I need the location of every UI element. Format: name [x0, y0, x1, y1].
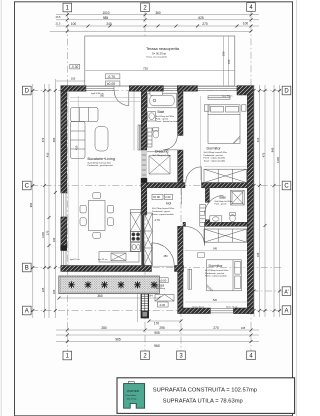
svg-text:Pereti : faianta/var lavabil: Pereti : faianta/var lavabil — [156, 120, 180, 123]
svg-text:Pardoseala : gresie: Pardoseala : gresie — [152, 210, 171, 213]
living interior dim hline 2 — [70, 101, 140, 103]
sofa vertical arm — [71, 122, 86, 159]
svg-text:4.76: 4.76 — [155, 218, 161, 222]
svg-text:C: C — [25, 184, 30, 190]
acces label box 2 — [158, 302, 169, 307]
bubble D right — [282, 86, 291, 95]
wall baie2 left lower stub — [205, 220, 209, 227]
svg-text:hgol 15 cm: hgol 15 cm — [70, 259, 80, 261]
radiator dormitor1 — [208, 96, 230, 99]
svg-text:±0.00: ±0.00 — [159, 279, 166, 283]
svg-text:Terasa neacoperita: Terasa neacoperita — [146, 46, 180, 51]
svg-text:410: 410 — [256, 137, 260, 142]
floor boundary line — [133, 91, 135, 150]
wall left: dark pier — [60, 246, 67, 251]
door sill terrace door — [114, 85, 129, 87]
left paper edge line — [0, 0, 2, 416]
dishwasher diagonal — [111, 253, 126, 261]
svg-text:1010: 1010 — [102, 11, 109, 15]
bed dormitor1 — [208, 105, 240, 144]
entry steps — [141, 294, 148, 318]
sofa horizontal arm — [71, 108, 99, 122]
bottom dim line row 2 — [56, 329, 259, 331]
svg-text:S locuibila=: S locuibila= — [125, 395, 137, 397]
svg-text:Bucatarie+Living: Bucatarie+Living — [88, 157, 115, 161]
svg-text:965: 965 — [29, 202, 33, 207]
svg-text:170: 170 — [154, 322, 160, 326]
wall B: right stub — [175, 266, 184, 272]
bathtub — [148, 93, 177, 108]
plant star 3 — [101, 281, 108, 288]
wall left: mid segment — [61, 217, 67, 246]
chair right 2 — [107, 218, 113, 226]
right paper edge line — [295, 0, 297, 416]
svg-text:905: 905 — [154, 331, 160, 335]
svg-text:21.5: 21.5 — [56, 22, 61, 25]
svg-text:100: 100 — [52, 237, 56, 242]
window top W3 bedroom — [198, 86, 238, 90]
right dim column lines — [253, 85, 255, 317]
wall grid2 thin lower — [141, 215, 144, 266]
svg-text:410: 410 — [74, 145, 78, 150]
plant star 1 — [68, 281, 75, 288]
svg-text:D: D — [284, 89, 289, 95]
svg-text:945: 945 — [271, 147, 275, 152]
svg-text:475: 475 — [262, 152, 266, 157]
bottom dim numbers — [101, 322, 245, 348]
svg-text:S=2.76mp h=2.65m: S=2.76mp h=2.65m — [153, 155, 172, 157]
legend parter glyph — [124, 384, 145, 409]
svg-text:SUPRAFATA CONSTRUITA = 102.57m: SUPRAFATA CONSTRUITA = 102.57mp — [153, 387, 257, 393]
svg-text:150: 150 — [227, 59, 231, 64]
wardrobe dressing X — [149, 156, 170, 174]
window top W2 — [164, 86, 178, 90]
svg-text:105: 105 — [241, 326, 246, 330]
left short dim line above wall — [56, 80, 85, 82]
svg-text:Pereti : vopsea lavabila: Pereti : vopsea lavabila — [152, 213, 174, 216]
svg-text:470: 470 — [41, 137, 45, 142]
bubble 1 bottom — [63, 351, 72, 360]
svg-text:Pard. : gresie: Pard. : gresie — [215, 203, 228, 205]
nightstand dormitor1 left — [204, 105, 209, 111]
svg-text:2.02: 2.02 — [165, 195, 171, 199]
svg-text:S=3.30mp: S=3.30mp — [156, 288, 166, 290]
left wall inner face hairline — [68, 91, 70, 265]
bubble A' right — [282, 287, 291, 296]
svg-text:102.57mp: 102.57mp — [127, 399, 138, 401]
window left WL1 — [62, 193, 66, 217]
svg-text:270: 270 — [213, 326, 219, 330]
dormitor2 door arc — [185, 226, 204, 245]
wall grid2 interior upper — [141, 91, 147, 150]
top dim line row 1 — [56, 14, 259, 16]
wall A bottom: left segment — [183, 308, 211, 314]
svg-text:1245: 1245 — [41, 232, 45, 238]
svg-text:985: 985 — [103, 16, 109, 20]
svg-text:±0.00: ±0.00 — [107, 82, 116, 86]
svg-text:170: 170 — [46, 230, 50, 235]
svg-text:-0.70: -0.70 — [107, 75, 115, 79]
svg-text:360: 360 — [97, 294, 103, 298]
svg-text:520: 520 — [213, 299, 218, 302]
washbasin baie1 — [148, 112, 156, 122]
grid axis C — [31, 185, 282, 187]
top dim numbers — [56, 11, 249, 26]
wall right grid4 — [247, 95, 253, 314]
svg-text:S=12.96mp hcam=2.65m: S=12.96mp hcam=2.65m — [205, 270, 229, 272]
svg-text:Tavan : vopsea lavabila: Tavan : vopsea lavabila — [204, 160, 226, 162]
dining table — [89, 201, 106, 231]
baie window niche — [150, 91, 163, 95]
legend box — [117, 378, 295, 414]
svg-text:C: C — [284, 184, 289, 190]
grid axis D — [31, 90, 282, 92]
wall baie2 left — [205, 188, 209, 203]
bubble C right — [282, 181, 291, 190]
svg-text:100: 100 — [71, 77, 76, 81]
svg-text:23.5: 23.5 — [56, 16, 61, 19]
grid2 opening living-hol — [142, 150, 146, 178]
svg-text:PARTER: PARTER — [127, 389, 140, 393]
svg-text:S=14.36mp hcam=2.65m: S=14.36mp hcam=2.65m — [204, 152, 228, 154]
svg-text:hpar= 15 cm: hpar= 15 cm — [226, 305, 238, 308]
svg-text:*terasa, sera neacoperita: *terasa, sera neacoperita — [146, 56, 168, 59]
svg-text:Dressing: Dressing — [155, 150, 168, 154]
steps side dim line — [137, 289, 139, 322]
svg-text:hpar= 15 cm: hpar= 15 cm — [193, 305, 205, 308]
wall grid3 dressing right — [178, 150, 183, 183]
svg-text:A: A — [284, 308, 288, 314]
svg-text:Hol: Hol — [166, 202, 171, 206]
dormitor2 interior dim — [185, 301, 250, 303]
svg-text:465: 465 — [52, 137, 56, 142]
svg-text:S=20.46mp hcam=2.65m: S=20.46mp hcam=2.65m — [88, 162, 112, 164]
svg-text:Pereti : vopsea lavabila: Pereti : vopsea lavabila — [204, 157, 226, 160]
chair left 1 — [80, 205, 86, 213]
svg-text:Baie: Baie — [158, 110, 165, 114]
terrace outline top — [85, 36, 235, 86]
dormitor1 interior dim — [200, 96, 202, 180]
cota box -0.70 — [106, 74, 120, 79]
bubble 4 top — [247, 3, 256, 12]
svg-text:Dormitor: Dormitor — [209, 264, 224, 268]
terrace strip dim line — [59, 297, 159, 299]
kitchen counter column — [130, 210, 141, 252]
left dim numbers (rotated) — [29, 137, 56, 294]
kitchen tall unit X — [130, 213, 141, 232]
svg-text:325: 325 — [41, 287, 45, 292]
legend glyph tab — [128, 382, 134, 385]
bubble 2 top — [141, 3, 150, 12]
wall top D: segment mid3 — [177, 86, 197, 92]
wall left: upper segment — [61, 91, 67, 193]
dormitor1 door arc — [186, 167, 202, 183]
svg-text:345: 345 — [213, 248, 218, 251]
svg-text:Pereti : vopsea lavabila: Pereti : vopsea lavabila — [205, 275, 227, 278]
left dim column lines — [32, 84, 34, 318]
svg-text:Acces: Acces — [155, 283, 165, 287]
svg-text:Pardoseala : parchet: Pardoseala : parchet — [205, 272, 225, 275]
radiator living — [138, 125, 141, 150]
baie2 door arc — [205, 195, 224, 214]
bottom dim line row 4 — [56, 341, 259, 343]
hol east face line — [181, 188, 183, 204]
plant star 2 — [85, 281, 92, 288]
bubble D left — [23, 86, 32, 95]
bubble A right — [282, 306, 291, 315]
svg-text:hpar 90cm: hpar 90cm — [222, 95, 233, 98]
kitchen bottom counter — [99, 252, 139, 263]
svg-text:100: 100 — [243, 22, 249, 26]
bottom dim ticks — [66, 320, 253, 344]
svg-text:625: 625 — [198, 16, 204, 20]
svg-text:360: 360 — [155, 11, 161, 15]
bed dormitor2 — [207, 260, 242, 291]
terrace door arc — [114, 91, 129, 106]
svg-text:250: 250 — [164, 255, 169, 258]
plant star 5 — [134, 281, 141, 288]
svg-text:A': A' — [284, 289, 288, 295]
cota box -0.30 left — [70, 64, 80, 69]
dressing door arc — [163, 136, 177, 150]
top dim ticks — [66, 13, 253, 33]
acces entry door arc — [152, 243, 174, 265]
wall grid3 lower: B to A — [178, 272, 183, 314]
svg-text:280: 280 — [101, 326, 107, 330]
grid axis B — [31, 267, 282, 269]
grid axis 4 — [250, 11, 252, 351]
chair left 2 — [80, 218, 86, 226]
svg-text:D: D — [25, 89, 30, 95]
acces label box 1 — [158, 278, 168, 283]
svg-text:Pardoseala : parchet: Pardoseala : parchet — [204, 154, 224, 157]
svg-text:Baie: Baie — [220, 196, 227, 200]
svg-text:965: 965 — [115, 338, 121, 342]
top dim line row 4 — [50, 30, 251, 32]
grid axis 1 — [66, 12, 68, 351]
bubble 1 top — [63, 3, 72, 12]
svg-text:295: 295 — [159, 326, 165, 330]
plant star 6 — [151, 281, 158, 288]
wall grid3 upper (baie right) — [178, 91, 183, 135]
svg-text:Pard. : gresie: Pard. : gresie — [156, 117, 169, 120]
wall B: left segment — [61, 266, 152, 272]
living interior dim vline — [77, 96, 79, 260]
radiator dormitor2 — [188, 269, 192, 289]
svg-text:±0.00: ±0.00 — [153, 195, 160, 199]
tall cabinet column X — [144, 213, 152, 266]
doormat — [155, 295, 174, 302]
svg-text:-0.30: -0.30 — [159, 303, 166, 307]
wardrobe dormitor1 X — [204, 169, 247, 182]
wall A bottom: right segment — [234, 308, 254, 314]
svg-text:S=5.73mp hcam=2.65m: S=5.73mp hcam=2.65m — [152, 208, 174, 210]
svg-text:270: 270 — [202, 22, 208, 26]
wall grid3 mid (acces right) — [178, 226, 183, 265]
grid2 dark pier at C — [141, 178, 147, 188]
dormitor2 cota box — [198, 253, 205, 257]
chair right 1 — [107, 205, 113, 213]
nightstand dormitor1 right — [242, 105, 246, 111]
svg-text:960: 960 — [154, 344, 160, 348]
bottom dim line row 3 — [56, 334, 259, 336]
svg-text:A: A — [25, 309, 29, 315]
wall grid2 interior lower — [141, 188, 147, 215]
grid axis 2 — [144, 11, 146, 351]
wall top D: segment corner-left — [61, 86, 86, 92]
dormitor2 top dim hairline — [185, 250, 247, 252]
right dim ticks — [253, 89, 282, 312]
svg-text:S= 36.27mp: S= 36.27mp — [152, 51, 167, 55]
coffee table — [95, 127, 108, 152]
kitchen stove burners — [131, 232, 141, 242]
svg-text:105: 105 — [52, 289, 56, 294]
wardrobe dormitor2 X — [204, 229, 247, 242]
svg-text:730: 730 — [143, 67, 148, 71]
baie2 washbasin — [210, 216, 222, 222]
wall C interior: left segment — [141, 183, 185, 188]
window bottom WA — [211, 309, 234, 313]
svg-text:SUPRAFATA UTILA = 78.63mp: SUPRAFATA UTILA = 78.63mp — [163, 398, 243, 404]
hol label boxes — [152, 194, 163, 199]
kitchen sink — [131, 243, 140, 252]
svg-text:1245: 1245 — [276, 157, 280, 163]
right dim numbers (rotated) — [251, 135, 281, 257]
svg-text:410: 410 — [46, 152, 50, 157]
cota box +-0.00 — [106, 81, 120, 86]
left dim ticks — [31, 89, 57, 312]
svg-text:360: 360 — [100, 95, 105, 98]
svg-text:190: 190 — [222, 51, 226, 56]
grid axis A — [31, 310, 282, 312]
chair bottom — [93, 232, 101, 238]
hol slat cabinet — [200, 204, 206, 226]
wc baie1 — [153, 128, 159, 131]
living interior dim hline — [70, 97, 140, 99]
bubble B left — [23, 263, 32, 272]
bubble 4 bottom — [247, 351, 256, 360]
svg-text:Pardoseala : gresie/parchet: Pardoseala : gresie/parchet — [88, 164, 114, 167]
radiator column baie1 — [147, 128, 152, 147]
bottom dim line row 1 — [149, 320, 181, 322]
baie2 wc — [230, 213, 236, 216]
wall C interior: right segment — [202, 183, 248, 188]
top dim line row 2 — [56, 19, 259, 21]
entry door sill — [152, 265, 175, 267]
grid axis A' — [252, 290, 283, 292]
wall top right corner block — [237, 86, 254, 95]
svg-text:-0.30: -0.30 — [71, 65, 78, 69]
chair top — [93, 193, 101, 199]
bubble A left — [23, 306, 32, 315]
svg-text:B: B — [25, 266, 29, 272]
window top W1 — [86, 86, 114, 90]
terrace inner dim line — [86, 70, 235, 72]
baie2 shower X — [231, 190, 245, 205]
terrace dim verticals — [222, 37, 224, 86]
window left WL2 — [62, 251, 66, 266]
svg-text:240: 240 — [106, 22, 112, 26]
bubble 2 bottom — [141, 351, 150, 360]
plant star 4 — [118, 281, 125, 288]
svg-text:100: 100 — [71, 22, 77, 26]
wall top D: segment mid2 — [129, 86, 163, 92]
top dim line row 3 — [56, 25, 259, 27]
svg-text:hp= 15 cm: hp= 15 cm — [98, 259, 108, 261]
svg-text:Dormitor: Dormitor — [207, 146, 222, 150]
svg-text:105: 105 — [256, 252, 260, 257]
dormitor1 wardrobe dim hairline — [204, 166, 247, 168]
wall baie2/dormitor2 divider — [205, 222, 248, 226]
bubble C left — [23, 181, 32, 190]
terrace paving strip — [59, 276, 160, 294]
bubble 3 bottom — [177, 351, 186, 360]
grid axis 3 — [180, 188, 182, 351]
baie/dressing divider line — [147, 151, 163, 153]
wall hol/dormitor2 divider stub — [183, 222, 186, 226]
